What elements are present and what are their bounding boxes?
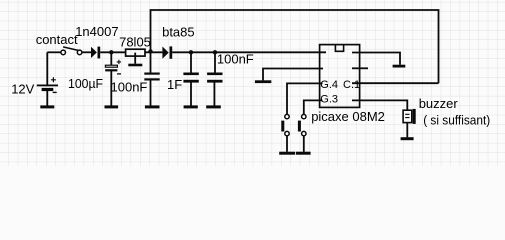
wire C2 100uF stem top	[110, 52, 112, 65]
C2 plus sign	[117, 60, 121, 64]
wire regulator ground pin	[134, 53, 136, 64]
wire C4 1F stem top	[190, 52, 192, 72]
capacitor C4 1F plates	[183, 73, 198, 83]
junction node at C2	[109, 50, 113, 54]
ground bar under buzzer	[401, 137, 414, 140]
svg-text:1n4007: 1n4007	[75, 24, 118, 39]
switch lever	[63, 47, 78, 51]
svg-text:bta85: bta85	[162, 25, 195, 40]
wire main 12V rail battery to switch	[47, 51, 61, 53]
svg-text:12V: 12V	[11, 82, 34, 97]
wire C.1 pin to top rail	[352, 82, 439, 84]
ground bar under C4	[184, 105, 198, 108]
ground bar at picaxe pin 2	[255, 80, 271, 83]
svg-text:C.1: C.1	[343, 79, 360, 91]
svg-text:100µF: 100µF	[68, 76, 103, 91]
wire top rail from 78l05 output up and across to C.1	[151, 10, 439, 83]
battery B1 12V plates	[37, 85, 58, 92]
wire battery stem top	[46, 52, 48, 84]
button S3 contacts	[302, 114, 306, 135]
wire C5 100nF stem top	[214, 52, 216, 72]
capacitor C2 100uF polarized plates	[105, 65, 117, 67]
ground bar under C5	[206, 105, 221, 108]
wire C3 100nF stem bottom to ground	[150, 80, 152, 105]
junction node at C3 / top rail	[148, 49, 152, 53]
wire button S3 bottom stem	[303, 136, 305, 152]
svg-text:100nF: 100nF	[217, 51, 254, 66]
ground bar at picaxe pin 8	[393, 65, 406, 68]
diode D1 1n4007	[91, 47, 100, 59]
picaxe notch	[335, 45, 343, 51]
wire C3 100nF stem top	[150, 52, 152, 72]
battery plus sign	[51, 77, 56, 82]
wire buzzer bottom to ground	[406, 123, 408, 138]
diode D2 bta85	[162, 46, 172, 58]
ground bar under C3	[145, 105, 160, 108]
svg-text:G.3: G.3	[320, 94, 338, 106]
C2 minus sign	[117, 73, 121, 75]
wire switch to diode D1	[82, 51, 91, 53]
buzzer side bar	[413, 109, 416, 124]
wire button S2 bottom stem	[286, 136, 288, 152]
junction node at C5	[213, 50, 217, 54]
button S2 contacts	[285, 114, 289, 135]
ground bar under S3	[296, 152, 311, 155]
svg-text:100nF: 100nF	[111, 79, 148, 94]
wire C4 1F stem bottom to ground	[190, 83, 192, 106]
wire C2 100uF stem bottom to ground	[110, 71, 112, 106]
button S3 actuator bar	[298, 121, 301, 132]
svg-text:buzzer: buzzer	[419, 96, 459, 111]
wire diode D1 to regulator input	[100, 51, 125, 53]
svg-text:G.4: G.4	[320, 79, 338, 91]
capacitor C5 100nF plates	[207, 73, 222, 83]
button S2 actuator bar	[281, 121, 284, 132]
svg-text:( si suffisant): ( si suffisant)	[423, 113, 490, 127]
wire bta85 to picaxe V+ pin 1	[172, 51, 326, 53]
junction node at C4	[189, 50, 193, 54]
ground bar under battery	[40, 105, 54, 108]
svg-text:picaxe 08M2: picaxe 08M2	[311, 109, 385, 124]
wire picaxe right ground pin 8	[352, 53, 400, 65]
wire buzzer pin	[352, 100, 407, 110]
ground bar under regulator	[128, 64, 142, 67]
op-amp U1 picaxe 08M2 body	[320, 45, 360, 108]
capacitor C3 100nF plates	[144, 73, 159, 81]
buzzer LS1 body	[403, 110, 412, 122]
wire picaxe left ground pin 2	[263, 69, 323, 81]
wire battery stem bottom to ground	[46, 91, 48, 106]
regulator U2 78l05 box	[126, 49, 145, 56]
ground bar under S2	[279, 152, 295, 155]
wire G.3 pin to button S3	[304, 100, 323, 114]
buzzer inner lines	[405, 114, 409, 117]
wire C5 100nF stem bottom to ground	[213, 83, 215, 106]
wire unused pin stub	[352, 67, 368, 69]
svg-text:contact: contact	[36, 32, 78, 47]
wire G.4 pin to button S2	[287, 83, 323, 114]
svg-text:1F: 1F	[167, 77, 182, 92]
wire regulator output to bta85	[145, 51, 162, 53]
svg-text:78l05: 78l05	[119, 35, 151, 50]
ground bar under C2	[105, 105, 119, 108]
switch contact circles	[61, 50, 82, 55]
battery minus sign	[53, 91, 57, 93]
